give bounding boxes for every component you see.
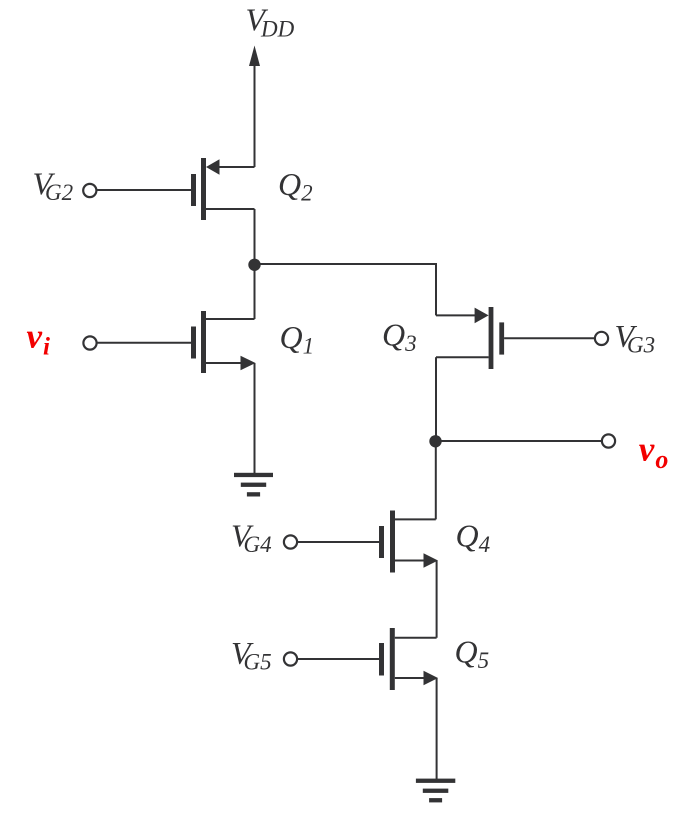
- svg-text:Q2: Q2: [278, 166, 313, 206]
- wire Q1 source to ground: [254, 363, 256, 473]
- wire Q3 drain to output node: [435, 357, 437, 441]
- transistor Q5: [379, 628, 438, 690]
- svg-text:VG2: VG2: [33, 166, 74, 206]
- svg-text:Q4: Q4: [456, 517, 491, 557]
- transistor Q1: [191, 311, 256, 373]
- svg-text:VDD: VDD: [246, 1, 295, 41]
- wire VG2 gate lead: [97, 189, 191, 191]
- ground under Q1: [234, 473, 273, 497]
- wire node A to Q1 drain: [254, 264, 256, 319]
- terminal vo: [602, 434, 615, 447]
- wire Q2 source to VDD: [254, 120, 256, 167]
- svg-text:Q5: Q5: [455, 633, 490, 673]
- svg-text:VG5: VG5: [231, 635, 272, 675]
- ground under Q5: [416, 779, 455, 803]
- svg-text:vi: vi: [27, 317, 51, 361]
- svg-text:VG4: VG4: [231, 518, 272, 558]
- wire vi gate lead: [97, 342, 191, 344]
- wire output node to terminal vo: [436, 440, 602, 442]
- wire Q3 gate lead: [504, 337, 595, 339]
- wire Q2 drain to node A: [254, 209, 256, 265]
- terminal VG2: [83, 184, 96, 197]
- svg-text:Q3: Q3: [382, 317, 417, 357]
- transistor Q4: [379, 511, 438, 573]
- terminal VG4: [284, 535, 297, 548]
- terminal vi: [83, 336, 96, 349]
- svg-text:VG3: VG3: [615, 318, 656, 358]
- power VDD arrow: [249, 46, 260, 168]
- wire node A to Q3: [255, 264, 437, 315]
- node output junction dot: [429, 435, 441, 447]
- svg-text:Q1: Q1: [280, 319, 315, 359]
- svg-text:vo: vo: [639, 429, 669, 474]
- transistor Q2: [191, 158, 255, 220]
- wire VG4 gate lead: [298, 541, 380, 543]
- node A junction dot: [248, 259, 260, 271]
- transistor Q3: [436, 307, 504, 369]
- wire Q4 source to Q5 drain: [436, 561, 438, 638]
- wire output node to Q4 drain: [435, 441, 437, 519]
- wire Q5 source to ground: [436, 678, 438, 779]
- terminal VG5: [284, 652, 297, 665]
- terminal VG3: [595, 332, 608, 345]
- wire VG5 gate lead: [298, 658, 380, 660]
